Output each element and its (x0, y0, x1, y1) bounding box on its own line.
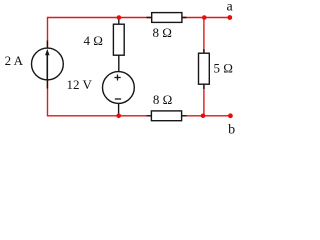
svg-text:b: b (228, 122, 235, 137)
svg-text:a: a (226, 0, 233, 15)
svg-text:8 Ω: 8 Ω (153, 92, 172, 107)
svg-text:5 Ω: 5 Ω (213, 60, 232, 75)
svg-text:4 Ω: 4 Ω (83, 33, 102, 48)
svg-text:12 V: 12 V (66, 77, 92, 92)
svg-text:8 Ω: 8 Ω (152, 25, 171, 40)
svg-text:2 A: 2 A (5, 53, 24, 68)
